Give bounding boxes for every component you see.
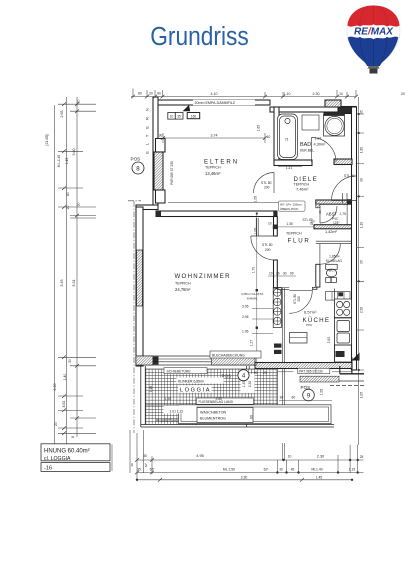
svg-text:1.21: 1.21 (286, 166, 293, 170)
svg-text:1.70: 1.70 (252, 267, 256, 274)
white patch for labels (177, 378, 224, 384)
svg-text:200: 200 (265, 248, 271, 252)
svg-text:3.74: 3.74 (211, 134, 218, 138)
eltern 374 dim line (163, 133, 265, 143)
kitchen upper cabinets row (326, 292, 351, 301)
wall bottom ELTERN jog (136, 205, 158, 210)
svg-text:2.30: 2.30 (241, 475, 248, 479)
svg-text:7,46m²: 7,46m² (296, 187, 309, 192)
kitchen west wall lines below (282, 369, 284, 405)
door BAD arc (312, 138, 337, 163)
bathtub faucet (285, 118, 290, 123)
svg-text:30: 30 (159, 134, 163, 138)
svg-text:95: 95 (359, 260, 363, 264)
door ABST arc (320, 206, 337, 223)
sliding window dark block (153, 357, 159, 365)
remax balloon logo (347, 6, 400, 74)
svg-text:RN.BREITUNG: RN.BREITUNG (156, 419, 178, 423)
svg-text:75: 75 (310, 222, 314, 226)
schiebetuere label box (164, 368, 207, 374)
svg-text:Grundriss: Grundriss (150, 23, 249, 51)
svg-text:24,78m²: 24,78m² (175, 287, 191, 292)
svg-text:RE/MAX: RE/MAX (354, 27, 394, 38)
bad small cabinet (302, 115, 319, 130)
svg-text:1.95: 1.95 (165, 397, 172, 401)
svg-text:STL 90: STL 90 (344, 174, 355, 178)
svg-text:1,42m²: 1,42m² (325, 230, 338, 234)
blech label box on wall (210, 351, 261, 358)
prt085 label box (298, 368, 330, 373)
svg-text:8: 8 (136, 165, 140, 172)
wall bottom KUECHE (255, 363, 352, 369)
svg-text:200: 200 (264, 186, 270, 190)
svg-text:1.45: 1.45 (65, 158, 69, 165)
top chain slashes (131, 95, 358, 99)
thick band below ABST (314, 225, 353, 229)
right chain ticks (356, 114, 364, 370)
empa label on wall (193, 100, 255, 105)
svg-text:20: 20 (401, 92, 405, 96)
svg-text:2.80: 2.80 (216, 397, 223, 401)
svg-text:STL 80: STL 80 (261, 181, 272, 185)
door KUECHE arc (289, 290, 312, 313)
svg-text:20: 20 (66, 206, 70, 210)
wall top BAD (270, 107, 356, 112)
svg-text:POS: POS (222, 374, 232, 379)
wall outer right (352, 107, 357, 370)
svg-text:90: 90 (318, 210, 322, 214)
svg-text:35: 35 (177, 115, 181, 119)
svg-text:2.65: 2.65 (60, 111, 64, 118)
wall bottom ELTERN (156, 211, 277, 217)
bottom chain slashes (135, 458, 304, 481)
wall bottom LOGGIA (141, 425, 334, 427)
svg-text:STL 80: STL 80 (303, 218, 313, 222)
svg-text:5.31: 5.31 (72, 280, 76, 287)
blumentrog outer band (179, 405, 332, 424)
svg-text:PVC: PVC (332, 217, 339, 221)
stove (335, 299, 352, 318)
svg-text:99: 99 (290, 272, 294, 276)
svg-text:1.15: 1.15 (349, 468, 356, 472)
small boxes below toilet (326, 278, 331, 283)
window hatch strip wohn left wall (137, 250, 143, 306)
svg-text:FLUR: FLUR (288, 238, 311, 245)
thin walls above WC (316, 241, 352, 244)
svg-text:TEPPICH: TEPPICH (175, 282, 191, 286)
svg-text:1.10: 1.10 (284, 92, 291, 96)
black triangle marker right (352, 353, 360, 361)
wall left LOGGIA (141, 366, 146, 427)
svg-text:90: 90 (157, 92, 161, 96)
bottom right corner step lines (340, 357, 352, 374)
wall ABST top (316, 200, 348, 204)
svg-text:30: 30 (279, 468, 283, 472)
sink (335, 318, 352, 345)
svg-text:WASCHBETON: WASCHBETON (200, 411, 227, 415)
door WC arc (320, 244, 340, 264)
svg-text:80: 80 (66, 192, 70, 196)
legend box top (41, 444, 110, 461)
svg-text:10: 10 (268, 222, 272, 226)
svg-text:1.05: 1.05 (254, 196, 258, 203)
svg-text:1.45: 1.45 (242, 381, 246, 388)
pos9 dim line (279, 400, 332, 402)
svg-text:20: 20 (149, 92, 153, 96)
svg-text:HNUNG 60.40m²: HNUNG 60.40m² (44, 448, 90, 454)
radiator column box (273, 288, 281, 328)
bottom chain verticals (130, 430, 358, 480)
window hatch strip left (154, 152, 163, 190)
bottom chain dots (282, 459, 284, 461)
svg-text:WOHNZIMMER: WOHNZIMMER (175, 273, 231, 280)
svg-text:8: 8 (71, 436, 75, 438)
halo for rotated labels (241, 374, 255, 393)
door entrance arc (332, 176, 357, 201)
svg-text:BLUMENTROG: BLUMENTROG (200, 417, 226, 421)
svg-text:1.40: 1.40 (63, 374, 67, 381)
svg-text:2.30: 2.30 (313, 92, 320, 96)
black triangle marker top wall (183, 105, 191, 111)
top chain line (131, 96, 356, 98)
svg-text:160: 160 (191, 115, 197, 119)
interior dim line wohn right (256, 214, 258, 367)
svg-text:1.65: 1.65 (257, 125, 261, 132)
dark blocks wohn right wall lower (274, 344, 282, 348)
bathtub (278, 114, 298, 160)
closet jamb lines WOHN (256, 218, 258, 236)
svg-text:KER.BEL.: KER.BEL. (300, 149, 315, 153)
svg-text:[21.65]: [21.65] (45, 135, 49, 146)
svg-text:10: 10 (288, 455, 292, 459)
svg-text:30: 30 (68, 359, 72, 363)
svg-text:PAR 085 ST 230: PAR 085 ST 230 (170, 161, 174, 185)
svg-text:123⁵: 123⁵ (333, 221, 340, 225)
svg-text:25: 25 (360, 455, 364, 459)
wall bottom hatch right segment (212, 356, 256, 365)
kitchen left cabinet (290, 333, 308, 344)
wall FLUR/KUECHE right stub (312, 287, 317, 289)
svg-text:20: 20 (77, 100, 81, 104)
left chain lines (55, 97, 78, 445)
small boxes below top wall ELTERN (168, 113, 176, 120)
svg-text:35: 35 (137, 468, 141, 472)
wall stub above washbasin (325, 100, 341, 107)
svg-text:1.35: 1.35 (287, 222, 293, 226)
waschbeton box (197, 408, 253, 423)
svg-text:1.05: 1.05 (254, 228, 258, 235)
svg-text:62⁵: 62⁵ (144, 462, 148, 467)
wall left ELTERN (153, 97, 158, 206)
wall bottom WOHNZIMMER frame (136, 356, 255, 365)
svg-text:10: 10 (267, 135, 271, 139)
svg-text:2.92: 2.92 (327, 337, 331, 344)
svg-text:10: 10 (269, 272, 273, 276)
wall middle WOHN/FLUR upper (274, 217, 278, 237)
svg-text:20: 20 (54, 422, 58, 426)
washbasin top dark edge (324, 113, 345, 116)
diele/abst divider lines (343, 193, 348, 203)
fliesen label box (197, 398, 254, 404)
washbasin bowl (325, 116, 344, 135)
svg-text:WC: WC (329, 269, 335, 273)
svg-text:5.45: 5.45 (60, 280, 64, 287)
svg-text:ELTERN: ELTERN (204, 159, 239, 166)
wall BAD bottom right piece (334, 159, 352, 165)
svg-text:2.20: 2.20 (53, 384, 57, 391)
svg-text:LOGGIA: LOGGIA (180, 388, 211, 394)
balloon red top (347, 6, 399, 27)
svg-text:3.06: 3.06 (242, 305, 249, 309)
svg-text:1.03: 1.03 (315, 137, 321, 141)
bad 121 dim line (278, 166, 302, 168)
wall top ELTERN (155, 100, 270, 105)
kitchen west thin wall lines (282, 288, 284, 363)
svg-text:1.27: 1.27 (250, 340, 254, 347)
svg-text:73: 73 (285, 138, 289, 142)
svg-text:4.10: 4.10 (211, 92, 218, 96)
svg-text:45: 45 (291, 468, 295, 472)
left chain ticks (58, 104, 96, 433)
red gores (360, 6, 387, 27)
wall right of ELTERN (274, 107, 279, 162)
svg-text:PVC: PVC (306, 323, 313, 327)
wall left WOHNZIMMER (136, 207, 143, 366)
wall middle WOHN/FLUR lower (274, 260, 278, 288)
svg-text:1.05: 1.05 (359, 392, 363, 398)
svg-text:20mm EMPA-DÄMMFILZ: 20mm EMPA-DÄMMFILZ (195, 101, 236, 105)
svg-text:M.L.1.40: M.L.1.40 (57, 155, 61, 168)
wall FLUR/KUECHE left stub (277, 288, 289, 290)
radiator side dim lines (252, 309, 273, 334)
door WOHN-FLUR arc (251, 236, 275, 260)
legend box bottom (41, 463, 110, 472)
svg-text:2.30: 2.30 (317, 455, 324, 459)
svg-text:TEPPICH: TEPPICH (205, 166, 221, 170)
ceiling beam line ELTERN (168, 202, 290, 204)
basket (368, 66, 380, 69)
svg-text:ML 2.50: ML 2.50 (223, 468, 235, 472)
wall BAD bottom left piece (274, 160, 312, 166)
svg-text:1.05: 1.05 (320, 389, 324, 396)
svg-text:1.45: 1.45 (316, 475, 323, 479)
svg-text:SCHIEBETÜRE: SCHIEBETÜRE (167, 369, 192, 373)
svg-text:BAD: BAD (300, 142, 311, 148)
svg-text:1.06: 1.06 (242, 330, 249, 334)
svg-text:4.95: 4.95 (196, 454, 203, 458)
door ELTERN arc (254, 173, 275, 194)
svg-text:ÜBERL.PICK: ÜBERL.PICK (280, 207, 299, 211)
radiator circles (274, 289, 282, 297)
small black rect diele (273, 225, 278, 230)
right chain line (358, 97, 360, 445)
svg-text:30: 30 (77, 203, 81, 207)
svg-text:KU.BELAG: KU.BELAG (326, 259, 342, 263)
kitchen counter line (334, 289, 336, 363)
svg-text:80: 80 (138, 92, 142, 96)
dark junction right end (273, 211, 277, 220)
svg-text:ML1.40: ML1.40 (311, 468, 322, 472)
sliding window glass lines (154, 359, 212, 362)
svg-text:ABST: ABST (326, 211, 337, 216)
svg-text:1,75: 1,75 (340, 212, 347, 216)
hatched grate bar (300, 376, 339, 382)
svg-text:30: 30 (283, 272, 287, 276)
svg-text:TEPPICH: TEPPICH (286, 232, 302, 236)
svg-text:-16: -16 (44, 466, 52, 472)
svg-text:6,57m²: 6,57m² (304, 310, 317, 315)
svg-text:2.30: 2.30 (248, 381, 252, 388)
loggia tile floor lower-left strip (146, 405, 197, 425)
washbasin counter (324, 115, 345, 137)
svg-text:8.52: 8.52 (62, 401, 66, 408)
toilet WC room bowl (326, 269, 336, 277)
svg-text:1.10: 1.10 (359, 222, 363, 228)
loggia tile floor (146, 369, 278, 405)
wall ABST left stub (316, 204, 320, 208)
wy lr boxed label (279, 201, 306, 211)
right chain dots (358, 113, 360, 115)
kitchen dark appliance box (336, 351, 345, 357)
wall right LOGGIA line (247, 366, 250, 427)
wall bottom corner hatch left (136, 356, 153, 365)
svg-text:BLECHABDECKUNG: BLECHABDECKUNG (212, 353, 245, 357)
ABST right inner line (346, 204, 348, 225)
blue gores (360, 37, 387, 66)
svg-text:PRT 085 ST 230: PRT 085 ST 230 (299, 370, 323, 374)
dim line above door (268, 275, 296, 277)
svg-text:95: 95 (359, 110, 363, 114)
svg-text:3.60: 3.60 (72, 149, 76, 156)
balloon blue bottom (348, 37, 399, 66)
window sill box lower left (156, 190, 166, 203)
svg-text:POS: POS (131, 157, 141, 162)
svg-text:90: 90 (359, 178, 363, 182)
svg-text:1.01 1.22: 1.01 1.22 (170, 410, 184, 414)
svg-text:4,30m²: 4,30m² (314, 143, 327, 147)
svg-text:60: 60 (292, 396, 296, 400)
svg-text:cl. LOGGIA: cl. LOGGIA (44, 456, 71, 462)
svg-text:WY LR+ 150cm: WY LR+ 150cm (280, 202, 302, 206)
toilet WC room tank (326, 264, 338, 269)
svg-text:10: 10 (339, 92, 343, 96)
svg-text:30: 30 (143, 454, 147, 458)
wall WC left (316, 264, 320, 287)
window sill box upper left (156, 139, 166, 153)
left chain slashes (62, 102, 79, 435)
svg-text:20: 20 (263, 371, 267, 375)
svg-text:KLINKER 6,85m²: KLINKER 6,85m² (178, 380, 205, 384)
balloon envelope white base (347, 6, 400, 67)
property dashdot line (133, 201, 135, 433)
svg-text:4.05m² GLATTZ.: 4.05m² GLATTZ. (241, 292, 264, 296)
svg-text:30: 30 (130, 463, 134, 467)
svg-text:1.80: 1.80 (359, 147, 363, 153)
dark block ABST top right (347, 199, 353, 205)
bottom chain lines (137, 460, 364, 480)
wall top right thick dark (338, 107, 356, 114)
kitchen lower cabinet (335, 345, 352, 362)
svg-text:62⁵: 62⁵ (150, 468, 156, 472)
svg-text:KAMIN: KAMIN (247, 297, 257, 301)
dim line right of loggia (250, 371, 353, 373)
svg-text:200: 200 (297, 296, 301, 302)
svg-text:62⁵: 62⁵ (264, 468, 270, 472)
dark junction left end (156, 211, 162, 217)
svg-text:60: 60 (250, 415, 254, 419)
svg-text:30: 30 (280, 396, 284, 400)
svg-text:1.40: 1.40 (149, 386, 153, 393)
svg-text:26: 26 (276, 272, 280, 276)
svg-text:2.30: 2.30 (359, 307, 363, 313)
svg-text:90: 90 (254, 371, 258, 375)
svg-text:ELTERN: ELTERN (145, 102, 150, 153)
svg-text:2.06: 2.06 (242, 315, 249, 319)
svg-text:STL 80: STL 80 (262, 243, 273, 247)
svg-text:13,46m²: 13,46m² (205, 171, 221, 176)
svg-text:10: 10 (170, 115, 174, 119)
